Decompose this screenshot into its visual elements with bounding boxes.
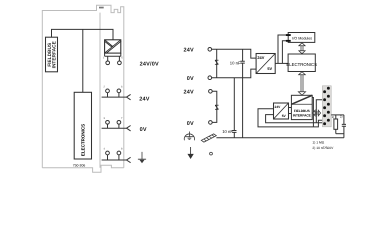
wire fieldbus box to bus power vertical bbox=[312, 98, 313, 127]
suppressor branch supply2 bbox=[212, 91, 217, 122]
wire to power tab 1 bbox=[278, 35, 286, 63]
electronics box (schematic) bbox=[288, 54, 315, 72]
wire fieldbus box to power square bbox=[52, 29, 114, 39]
svg-text:7: 7 bbox=[121, 117, 123, 120]
svg-text:3: 3 bbox=[104, 117, 106, 120]
svg-text:2: 2 bbox=[104, 86, 106, 89]
capacitor C3 10nF/500V bbox=[342, 115, 346, 138]
rail shield clamp symbol bbox=[201, 134, 216, 142]
svg-text:2): 2) bbox=[340, 115, 343, 119]
terminal circle 0V supply2 bbox=[209, 121, 213, 125]
row 3 terminal contacts 0V bbox=[102, 120, 131, 130]
wire connector to terminator network bbox=[331, 114, 344, 116]
svg-text:750-306: 750-306 bbox=[73, 164, 86, 168]
earth symbol right of row 4 bbox=[138, 152, 146, 163]
electronics box (module) bbox=[74, 92, 91, 159]
bus signal bracket wire bbox=[316, 100, 324, 123]
svg-text:24V: 24V bbox=[275, 105, 282, 109]
svg-text:5: 5 bbox=[121, 57, 123, 60]
suppressor branch supply1 bbox=[216, 49, 218, 77]
data double arrow I/O to electronics bbox=[299, 43, 305, 54]
stub dc/dc2 to fieldbus interface lower bbox=[289, 113, 292, 115]
svg-text:24V: 24V bbox=[184, 48, 195, 54]
supply1 24V rail bbox=[212, 49, 256, 58]
svg-text:10 nF: 10 nF bbox=[222, 129, 233, 134]
functional earth arrow symbol bbox=[188, 147, 193, 158]
earth rail bbox=[216, 137, 344, 139]
power tab 1 bbox=[286, 34, 291, 36]
capacitor C2 plates bbox=[232, 131, 236, 133]
svg-text:1) 1 MΩ: 1) 1 MΩ bbox=[312, 141, 324, 145]
connector pins right column bbox=[327, 87, 330, 122]
svg-text:I/O Modules: I/O Modules bbox=[292, 37, 312, 41]
fieldbus interface box (schematic) bbox=[291, 95, 312, 119]
svg-text:24V: 24V bbox=[139, 97, 150, 103]
svg-text:INTERFACE: INTERFACE bbox=[52, 40, 58, 68]
dc/dc 2 input wire 24V loop bbox=[258, 109, 313, 127]
supply1 0V rail bbox=[212, 69, 256, 78]
svg-text:8: 8 bbox=[121, 148, 123, 151]
svg-text:INTERFACE: INTERFACE bbox=[293, 113, 311, 117]
wire to electronics box bbox=[82, 29, 84, 92]
legend circle bbox=[210, 152, 213, 155]
svg-text:1): 1) bbox=[332, 115, 335, 119]
terminal circle 24V supply1 bbox=[208, 48, 212, 52]
dc/dc 1 output wire bbox=[275, 62, 288, 64]
svg-text:24V: 24V bbox=[184, 90, 195, 96]
fieldbus interface box (module) bbox=[46, 37, 58, 72]
data double arrow fieldbus interface to connector bbox=[313, 110, 321, 116]
power tab 2 bbox=[286, 40, 291, 42]
data double arrow electronics to fieldbus interface bbox=[298, 72, 305, 95]
svg-text:1: 1 bbox=[103, 57, 105, 60]
svg-text:0V: 0V bbox=[187, 76, 194, 82]
power supply square with diagonals bbox=[105, 40, 122, 54]
dc/dc 2 input wire 0V loop bbox=[266, 115, 325, 123]
connector pins left column bbox=[323, 90, 326, 125]
svg-text:0V: 0V bbox=[187, 121, 194, 127]
terminal circle 0V supply1 bbox=[208, 76, 212, 80]
protective earth symbol bbox=[184, 132, 194, 141]
row 4 terminal contacts earth bbox=[102, 151, 131, 163]
dc/dc converter 2 bbox=[274, 103, 289, 119]
resistor R1 1 Mohm bbox=[334, 115, 338, 134]
svg-text:5V: 5V bbox=[267, 66, 272, 71]
fieldbus connector block bbox=[322, 86, 331, 127]
svg-text:6: 6 bbox=[121, 86, 123, 89]
terminal circle 24V supply2 bbox=[209, 90, 213, 94]
svg-text:2) 10 nF/500V: 2) 10 nF/500V bbox=[312, 146, 334, 150]
I/O modules box bbox=[288, 33, 315, 43]
svg-text:ELECTRONICS: ELECTRONICS bbox=[80, 124, 85, 156]
stub dc/dc2 to fieldbus interface upper bbox=[289, 107, 292, 109]
svg-text:10 nF: 10 nF bbox=[230, 61, 241, 66]
terminator bottom wire bbox=[336, 133, 344, 135]
svg-text:4: 4 bbox=[104, 148, 106, 151]
module latch bbox=[99, 7, 104, 9]
capacitor C2 branch 0V to earth bbox=[233, 78, 235, 138]
svg-text:24V: 24V bbox=[257, 55, 264, 60]
module housing outline bbox=[42, 5, 124, 172]
dc/dc converter 1 bbox=[256, 54, 275, 74]
row 2 terminal contacts 24V bbox=[102, 89, 131, 100]
capacitor C1 plates bbox=[240, 61, 244, 63]
svg-text:24V/0V: 24V/0V bbox=[140, 62, 159, 68]
wire to power tab 2 bbox=[282, 41, 286, 64]
bus power wire to connector pin bbox=[313, 120, 328, 127]
capacitor C1 branch bbox=[242, 49, 244, 138]
row 1 terminal contacts 24V/0V bbox=[105, 53, 122, 65]
suppressor symbol supply1 bbox=[215, 60, 219, 64]
suppressor symbol supply2 bbox=[215, 105, 219, 109]
svg-text:ELECTRONICS: ELECTRONICS bbox=[286, 62, 317, 67]
svg-text:0V: 0V bbox=[140, 127, 147, 133]
